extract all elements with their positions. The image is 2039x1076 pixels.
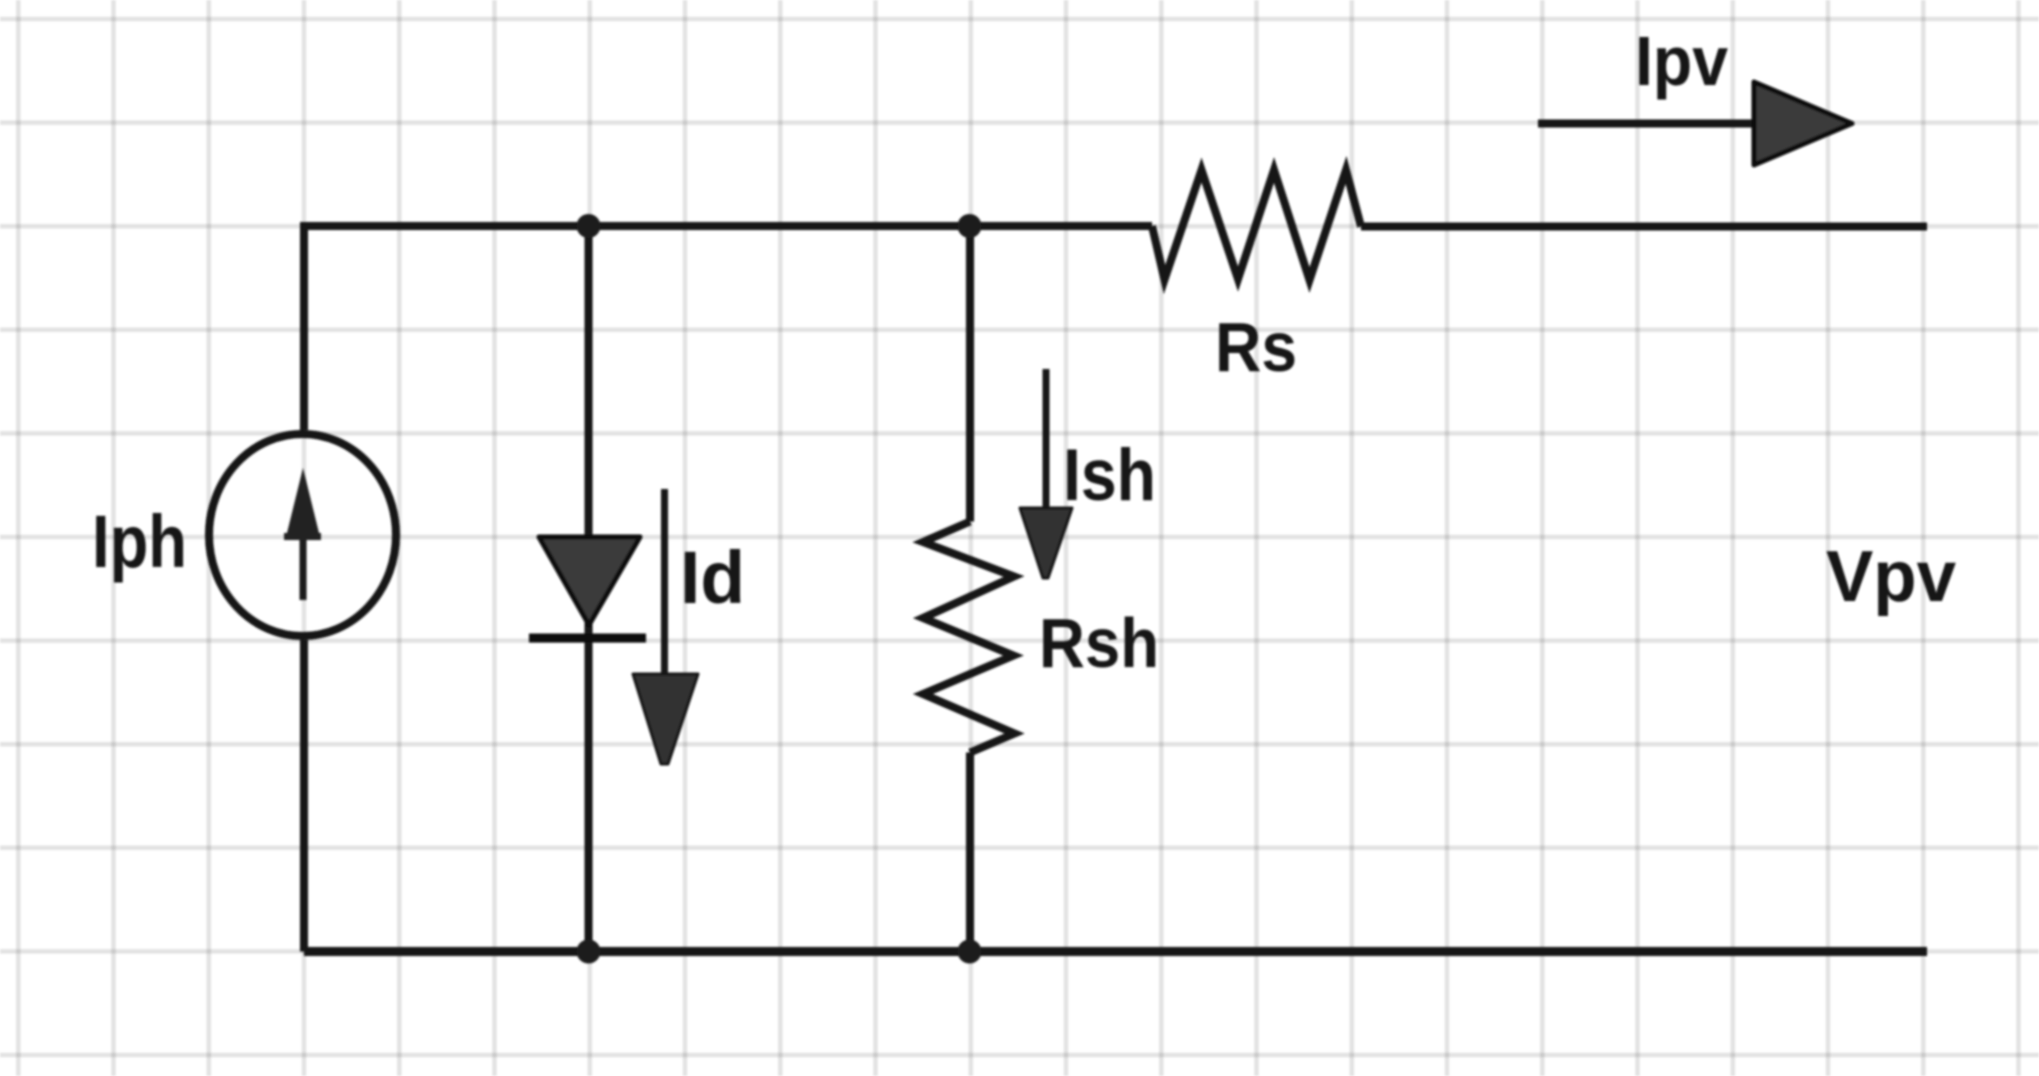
- svg-text:Ipv: Ipv: [1635, 22, 1728, 100]
- wire diode branch: [585, 226, 593, 952]
- current source Iph: [209, 434, 396, 636]
- svg-text:Rs: Rs: [1215, 308, 1297, 386]
- svg-text:Vpv: Vpv: [1826, 537, 1956, 617]
- svg-text:Ish: Ish: [1063, 435, 1156, 516]
- diode D1: [539, 537, 640, 625]
- resistor Rs: [1152, 170, 1361, 280]
- node dot top B: [958, 214, 982, 238]
- wire top right: [1361, 223, 1927, 231]
- current source arrow: [300, 538, 307, 600]
- Ipv output arrow: [1538, 120, 1760, 128]
- node dot bottom A: [577, 940, 601, 964]
- wire left branch: [300, 222, 308, 952]
- svg-text:Id: Id: [680, 536, 745, 619]
- svg-text:Iph: Iph: [92, 500, 187, 583]
- node dot bottom B: [958, 940, 982, 964]
- wire bottom bus: [304, 947, 1927, 956]
- svg-text:Rsh: Rsh: [1039, 604, 1159, 682]
- node dot top A: [577, 214, 601, 238]
- wire top bus: [304, 222, 1152, 230]
- Ish current arrow: [1043, 369, 1050, 510]
- Id current arrow: [661, 489, 668, 676]
- wire shunt branch: [966, 226, 974, 952]
- resistor Rsh: [923, 522, 1015, 753]
